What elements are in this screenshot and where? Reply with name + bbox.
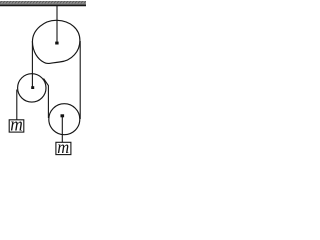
- wire: big pulley right tangent down to bottom pulley right: [79, 41, 81, 119]
- svg-text:m: m: [10, 114, 23, 135]
- wire: left pulley left rim down to left mass: [16, 90, 18, 120]
- big pulley axle dot: [55, 42, 58, 45]
- ceiling bottom edge: [0, 5, 86, 7]
- left pulley: [18, 74, 46, 102]
- ceiling bar: [0, 1, 86, 5]
- bottom pulley axle dot: [61, 114, 65, 117]
- ceiling bar lower shade: [0, 4, 86, 5]
- wire: left pulley right rim slant then down to bottom pulley left: [44, 79, 49, 119]
- svg-text:m: m: [57, 136, 69, 157]
- hanger wire to big pulley: [56, 6, 58, 43]
- left pulley axle dot: [31, 86, 34, 89]
- right mass label m: [57, 136, 69, 157]
- left mass label m: [10, 114, 23, 135]
- big pulley U1: [32, 20, 79, 63]
- right mass box: [56, 142, 71, 154]
- wire: bottom pulley axle down to right mass: [61, 116, 63, 143]
- bottom pulley: [49, 104, 80, 135]
- left mass box: [9, 120, 24, 132]
- background: [0, 0, 87, 158]
- wire: big pulley left tangent down to left pulley axle: [31, 41, 33, 87]
